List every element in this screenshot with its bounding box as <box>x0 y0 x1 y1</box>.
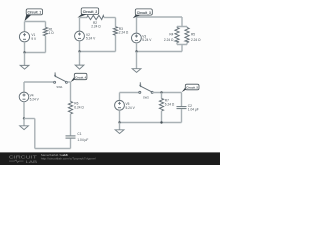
wire feed right (circuit 3) <box>181 17 183 27</box>
svg-text:1.04 µF: 1.04 µF <box>188 108 199 112</box>
voltage source V5 <box>115 100 125 110</box>
svg-text:R5: R5 <box>191 33 195 37</box>
svg-text:5.24 V: 5.24 V <box>126 106 136 110</box>
ground GND (circuit 4) <box>20 119 29 130</box>
annotation tag Circuit_1 <box>24 9 42 21</box>
annotation tag Circuit_3 <box>133 9 153 18</box>
voltage source V4 <box>19 92 29 102</box>
svg-text:SamerKatfull / Lab8: SamerKatfull / Lab8 <box>41 153 68 157</box>
svg-text:6.24 Ω: 6.24 Ω <box>165 102 175 106</box>
junction node (circuit 2) <box>78 50 80 52</box>
wire left upper (circuit 5) <box>119 93 121 101</box>
resistor R6 <box>68 102 72 115</box>
wire left lower (circuit 4) <box>23 102 25 119</box>
resistor R7 <box>159 99 163 112</box>
wire top left (circuit 4) <box>24 81 53 83</box>
wire top (circuit 3) <box>137 16 183 18</box>
ground GND (circuit 1) <box>20 53 29 70</box>
junction node left (circuit 5) <box>118 121 120 123</box>
CircuitLab logo text <box>9 154 38 164</box>
svg-text:SW1: SW1 <box>56 85 63 89</box>
switch SW2 <box>139 82 153 93</box>
wire bottom (circuit 3) <box>137 51 183 53</box>
voltage source V3 <box>132 33 142 43</box>
svg-text:Circuit_1: Circuit_1 <box>28 10 42 14</box>
wire resistor to capacitor (circuit 4) <box>70 114 72 135</box>
ground GND (circuit 5) <box>115 123 124 134</box>
resistor R5 <box>185 28 189 43</box>
svg-text:5.24 V: 5.24 V <box>86 37 96 41</box>
wire right upper (circuit 1) <box>45 22 47 28</box>
voltage source V2 <box>75 31 85 41</box>
svg-text:Circuit_4: Circuit_4 <box>75 75 86 79</box>
wire left upper (circuit 3) <box>136 17 138 33</box>
wire right upper (circuit 4) <box>70 82 72 102</box>
svg-text:Circuit_2: Circuit_2 <box>83 10 98 14</box>
footer bar <box>0 152 220 165</box>
capacitor C1 <box>66 136 76 138</box>
svg-text:C1: C1 <box>77 132 81 136</box>
wire top left (circuit 2) <box>80 17 88 19</box>
svg-text:6.24 Ω: 6.24 Ω <box>74 106 84 110</box>
wire left upper (circuit 4) <box>23 82 25 92</box>
wire top left (circuit 5) <box>120 92 139 94</box>
svg-text:5.24 V: 5.24 V <box>142 38 152 42</box>
junction node (circuit 3) <box>135 50 137 52</box>
wire R7 upper (circuit 5) <box>161 93 163 99</box>
svg-text:http://circuitlab.com/c/7pqmyk: http://circuitlab.com/c/7pqmyk7r/gone/ <box>41 157 96 161</box>
wire C2 upper (circuit 5) <box>181 93 183 107</box>
wire left lower (circuit 5) <box>119 110 121 122</box>
svg-text:Circuit_5: Circuit_5 <box>186 86 198 90</box>
svg-text:LAB: LAB <box>26 159 38 164</box>
wire R7 lower (circuit 5) <box>161 111 163 123</box>
wire left upper (circuit 1) <box>24 22 26 32</box>
annotation tag Circuit_2 <box>77 8 98 18</box>
wire right lower (circuit 1) <box>45 36 47 53</box>
wire left lower (circuit 3) <box>136 43 138 52</box>
wire parallel top bar (circuit 3) <box>177 27 187 28</box>
junction node R7 bottom (circuit 5) <box>160 121 162 123</box>
wire bottom (circuit 5) <box>120 122 182 124</box>
svg-text:2.24 Ω: 2.24 Ω <box>119 31 129 35</box>
wire top right (circuit 2) <box>104 17 116 19</box>
wire bottom (circuit 1) <box>25 52 46 54</box>
wire left lower (circuit 1) <box>24 42 26 53</box>
junction node top (circuit 5) <box>160 91 162 93</box>
resistor R3 <box>113 27 117 36</box>
ground GND (circuit 2) <box>75 52 84 70</box>
resistor R2 <box>87 15 104 19</box>
junction node (circuit 1) <box>23 51 25 53</box>
wire left lower (circuit 2) <box>79 41 81 52</box>
wire C2 lower (circuit 5) <box>181 109 183 122</box>
svg-text:R4: R4 <box>169 32 173 36</box>
svg-text:1.04 µF: 1.04 µF <box>77 138 88 142</box>
switch SW1 <box>54 72 68 83</box>
svg-text:2.24 Ω: 2.24 Ω <box>91 25 101 29</box>
resistor R1 <box>43 27 47 36</box>
annotation tag Circuit_5 <box>182 84 199 92</box>
wire riser (circuit 4) <box>34 119 36 149</box>
wire feed down (circuit 3) <box>181 45 183 52</box>
voltage source V1 <box>19 32 29 42</box>
wire bottom (circuit 4) <box>35 148 71 150</box>
wire left upper (circuit 2) <box>79 18 81 32</box>
wire switch to tap (circuit 5) <box>153 92 182 94</box>
resistor R4 <box>175 28 179 43</box>
annotation tag Circuit_4 <box>70 73 87 82</box>
wire right upper (circuit 2) <box>115 18 117 27</box>
svg-text:5.24 V: 5.24 V <box>30 97 40 101</box>
wire bottom (circuit 2) <box>80 51 116 53</box>
svg-text:Circuit_3: Circuit_3 <box>137 11 151 15</box>
junction node (circuit 4) <box>23 117 25 119</box>
svg-text:2.24 Ω: 2.24 Ω <box>191 38 201 42</box>
wire right lower (circuit 2) <box>115 35 117 51</box>
svg-text:2.24 Ω: 2.24 Ω <box>164 38 174 42</box>
svg-text:SW2: SW2 <box>143 95 150 99</box>
svg-text:1 Ω: 1 Ω <box>49 31 55 35</box>
wire switch to corner (circuit 4) <box>67 81 70 83</box>
wire parallel bottom bar (circuit 3) <box>177 42 187 44</box>
wire capacitor to bottom (circuit 4) <box>70 139 72 149</box>
wire riser to junction (circuit 4) <box>24 118 35 120</box>
ground GND (circuit 3) <box>132 52 141 73</box>
capacitor C2 <box>177 107 187 109</box>
wire top (circuit 1) <box>25 21 46 23</box>
